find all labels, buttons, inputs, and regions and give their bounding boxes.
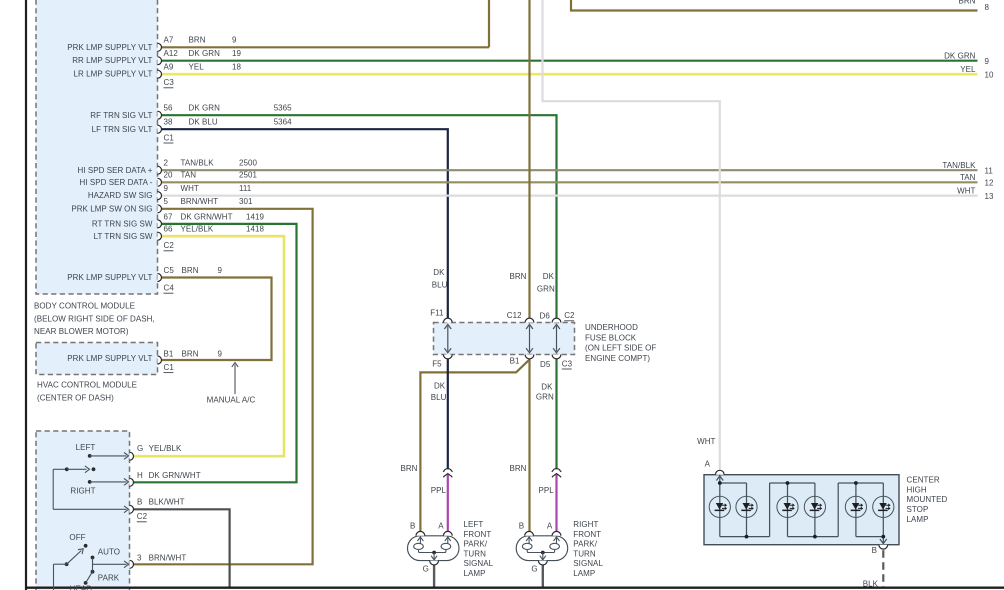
- svg-text:9: 9: [985, 57, 990, 66]
- svg-text:C3: C3: [164, 78, 175, 87]
- svg-text:DK GRN: DK GRN: [189, 104, 221, 113]
- svg-text:2: 2: [164, 159, 169, 168]
- svg-text:LAMP: LAMP: [573, 569, 595, 578]
- svg-text:B: B: [137, 498, 142, 507]
- svg-text:PARK/: PARK/: [573, 540, 597, 549]
- svg-text:PRK LMP SUPPLY VLT: PRK LMP SUPPLY VLT: [67, 354, 152, 363]
- svg-text:HI SPD SER DATA -: HI SPD SER DATA -: [79, 178, 152, 187]
- svg-text:HVAC CONTROL MODULE: HVAC CONTROL MODULE: [37, 381, 137, 390]
- svg-text:FRONT: FRONT: [573, 530, 601, 539]
- svg-text:WHT: WHT: [181, 184, 199, 193]
- svg-text:SIGNAL: SIGNAL: [573, 559, 603, 568]
- svg-text:RIGHT: RIGHT: [70, 486, 95, 495]
- svg-text:BRN: BRN: [182, 266, 199, 275]
- svg-text:PRK LMP SUPPLY VLT: PRK LMP SUPPLY VLT: [67, 43, 152, 52]
- svg-text:56: 56: [164, 104, 173, 113]
- svg-text:BLU: BLU: [431, 393, 447, 402]
- svg-text:GRN: GRN: [536, 392, 554, 401]
- svg-text:9: 9: [164, 184, 169, 193]
- svg-text:OFF: OFF: [69, 533, 85, 542]
- svg-text:BRN/WHT: BRN/WHT: [181, 197, 219, 206]
- svg-text:LAMP: LAMP: [907, 515, 929, 524]
- svg-text:H: H: [137, 471, 143, 480]
- svg-text:BRN: BRN: [189, 36, 206, 45]
- svg-text:67: 67: [164, 212, 173, 221]
- svg-text:A9: A9: [164, 63, 174, 72]
- svg-text:FRONT: FRONT: [464, 530, 492, 539]
- svg-text:G: G: [531, 565, 537, 574]
- svg-text:YEL: YEL: [960, 65, 976, 74]
- svg-text:HEAD: HEAD: [70, 585, 93, 590]
- svg-text:DK: DK: [434, 382, 446, 391]
- svg-text:PPL: PPL: [431, 486, 447, 495]
- svg-text:TAN/BLK: TAN/BLK: [181, 159, 215, 168]
- svg-text:3: 3: [137, 553, 142, 562]
- svg-text:10: 10: [985, 70, 994, 79]
- svg-text:9: 9: [232, 36, 237, 45]
- svg-text:ENGINE COMPT): ENGINE COMPT): [585, 354, 650, 363]
- svg-text:YEL/BLK: YEL/BLK: [181, 225, 214, 234]
- svg-text:NEAR BLOWER MOTOR): NEAR BLOWER MOTOR): [34, 327, 129, 336]
- svg-text:C5: C5: [164, 266, 175, 275]
- svg-text:DK: DK: [541, 383, 553, 392]
- svg-text:A: A: [438, 521, 444, 530]
- svg-text:SIGNAL: SIGNAL: [464, 559, 494, 568]
- svg-text:F5: F5: [432, 360, 442, 369]
- svg-text:D5: D5: [540, 360, 551, 369]
- svg-text:TURN: TURN: [573, 549, 596, 558]
- svg-text:BRN: BRN: [509, 272, 526, 281]
- svg-text:BRN: BRN: [400, 464, 417, 473]
- svg-text:A: A: [547, 521, 553, 530]
- svg-text:STOP: STOP: [907, 505, 929, 514]
- svg-text:YEL/BLK: YEL/BLK: [149, 444, 182, 453]
- svg-text:A12: A12: [164, 49, 179, 58]
- svg-text:BRN/WHT: BRN/WHT: [149, 553, 187, 562]
- svg-text:G: G: [423, 565, 429, 574]
- svg-text:C12: C12: [507, 311, 522, 320]
- svg-text:C2: C2: [564, 311, 575, 320]
- svg-text:FUSE BLOCK: FUSE BLOCK: [585, 333, 637, 342]
- svg-text:B1: B1: [164, 349, 174, 358]
- svg-text:WHT: WHT: [697, 437, 715, 446]
- svg-text:RF TRN SIG VLT: RF TRN SIG VLT: [90, 111, 152, 120]
- svg-text:DK GRN/WHT: DK GRN/WHT: [181, 212, 233, 221]
- svg-text:YEL: YEL: [189, 63, 205, 72]
- svg-text:DK GRN: DK GRN: [189, 49, 221, 58]
- svg-text:18: 18: [232, 63, 241, 72]
- svg-text:HI SPD SER DATA +: HI SPD SER DATA +: [77, 166, 152, 175]
- svg-text:LEFT: LEFT: [76, 443, 96, 452]
- svg-text:BRN: BRN: [958, 0, 975, 5]
- svg-text:LF TRN SIG VLT: LF TRN SIG VLT: [92, 125, 153, 134]
- svg-text:DK GRN: DK GRN: [944, 52, 976, 61]
- svg-text:LAMP: LAMP: [464, 569, 486, 578]
- svg-text:301: 301: [239, 197, 253, 206]
- svg-text:C2: C2: [164, 241, 175, 250]
- svg-text:5365: 5365: [274, 104, 292, 113]
- svg-text:CENTER: CENTER: [907, 476, 940, 485]
- svg-text:A7: A7: [164, 36, 174, 45]
- svg-text:PARK/: PARK/: [464, 540, 488, 549]
- svg-text:38: 38: [164, 118, 173, 127]
- svg-text:AUTO: AUTO: [98, 547, 120, 556]
- svg-text:RR LMP SUPPLY VLT: RR LMP SUPPLY VLT: [72, 56, 152, 65]
- svg-text:19: 19: [232, 49, 241, 58]
- svg-text:MOUNTED: MOUNTED: [907, 495, 948, 504]
- svg-text:13: 13: [985, 192, 994, 201]
- svg-text:111: 111: [239, 184, 252, 193]
- svg-text:MANUAL A/C: MANUAL A/C: [207, 396, 256, 405]
- svg-text:DK: DK: [543, 272, 555, 281]
- svg-text:11: 11: [985, 166, 994, 175]
- svg-text:GRN: GRN: [537, 285, 555, 294]
- svg-text:BODY CONTROL MODULE: BODY CONTROL MODULE: [34, 302, 135, 311]
- svg-text:C2: C2: [137, 512, 148, 521]
- svg-text:C1: C1: [164, 133, 175, 142]
- svg-text:BLU: BLU: [432, 280, 448, 289]
- svg-text:2501: 2501: [239, 171, 257, 180]
- svg-text:WHT: WHT: [957, 186, 975, 195]
- svg-text:8: 8: [985, 3, 990, 12]
- svg-text:9: 9: [218, 349, 223, 358]
- svg-text:2500: 2500: [239, 159, 257, 168]
- svg-text:1418: 1418: [246, 225, 264, 234]
- svg-text:DK BLU: DK BLU: [189, 118, 218, 127]
- svg-text:TAN: TAN: [960, 173, 976, 182]
- svg-text:B: B: [872, 546, 877, 555]
- svg-text:UNDERHOOD: UNDERHOOD: [585, 323, 638, 332]
- svg-text:C1: C1: [164, 363, 175, 372]
- svg-text:PPL: PPL: [539, 486, 555, 495]
- svg-text:TURN: TURN: [464, 549, 487, 558]
- svg-text:B: B: [519, 521, 524, 530]
- svg-text:BLK/WHT: BLK/WHT: [149, 498, 185, 507]
- svg-text:5: 5: [164, 197, 169, 206]
- svg-text:B1: B1: [510, 357, 520, 366]
- svg-text:66: 66: [164, 225, 173, 234]
- svg-text:DK GRN/WHT: DK GRN/WHT: [149, 471, 201, 480]
- svg-text:B: B: [410, 521, 415, 530]
- svg-text:(ON LEFT SIDE OF: (ON LEFT SIDE OF: [585, 344, 656, 353]
- svg-text:C3: C3: [562, 359, 573, 368]
- svg-text:LR LMP SUPPLY VLT: LR LMP SUPPLY VLT: [74, 70, 153, 79]
- svg-text:HAZARD SW SIG: HAZARD SW SIG: [88, 191, 153, 200]
- svg-text:RT TRN SIG SW: RT TRN SIG SW: [92, 220, 153, 229]
- svg-text:5364: 5364: [274, 118, 292, 127]
- svg-text:20: 20: [164, 171, 173, 180]
- svg-text:PRK LMP SUPPLY VLT: PRK LMP SUPPLY VLT: [67, 273, 152, 282]
- svg-text:TAN/BLK: TAN/BLK: [942, 161, 976, 170]
- svg-text:RIGHT: RIGHT: [573, 520, 598, 529]
- svg-text:12: 12: [985, 179, 994, 188]
- svg-text:BRN: BRN: [509, 464, 526, 473]
- svg-text:BLK: BLK: [863, 580, 879, 589]
- svg-text:PRK LMP SW ON SIG: PRK LMP SW ON SIG: [71, 204, 152, 213]
- svg-text:(CENTER OF DASH): (CENTER OF DASH): [37, 393, 114, 402]
- svg-text:LT TRN SIG SW: LT TRN SIG SW: [94, 232, 153, 241]
- svg-text:PARK: PARK: [98, 574, 120, 583]
- svg-text:LEFT: LEFT: [464, 520, 484, 529]
- svg-text:9: 9: [218, 266, 223, 275]
- svg-text:TAN: TAN: [181, 171, 197, 180]
- svg-text:D6: D6: [540, 312, 551, 321]
- svg-text:F11: F11: [430, 308, 444, 317]
- svg-text:1419: 1419: [246, 212, 264, 221]
- svg-text:C4: C4: [164, 284, 175, 293]
- svg-text:A: A: [705, 459, 711, 468]
- svg-text:DK: DK: [433, 268, 445, 277]
- svg-text:HIGH: HIGH: [907, 485, 927, 494]
- svg-text:G: G: [137, 444, 143, 453]
- svg-text:(BELOW RIGHT SIDE OF DASH,: (BELOW RIGHT SIDE OF DASH,: [34, 314, 155, 323]
- svg-text:BRN: BRN: [182, 349, 199, 358]
